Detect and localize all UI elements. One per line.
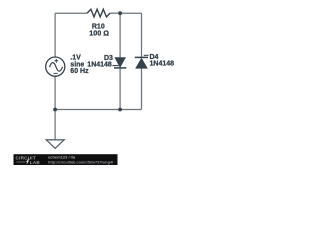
label pointer line for D3 — [112, 65, 118, 67]
label pointer line for D4 — [144, 54, 149, 56]
resistor R10 — [87, 9, 110, 17]
wire: D3 vertical upper (junction down to D3 anode) — [119, 13, 121, 58]
junction dot: top rail at D3 — [118, 11, 122, 15]
wire: top rail right segment (D3 junction to D4 corner) — [120, 12, 141, 14]
wire: top rail middle segment (resistor to D3 junction) — [110, 12, 120, 14]
svg-text:100 Ω: 100 Ω — [89, 28, 109, 37]
diode D4 (pointing up) — [135, 57, 148, 68]
junction dot: bottom rail at D3 — [118, 108, 122, 112]
watermark bar — [14, 154, 118, 165]
wire: left vertical from top rail down to source V1 top — [54, 13, 56, 57]
svg-text:1N4148: 1N4148 — [150, 61, 175, 68]
junction dot: bottom rail at source — [53, 108, 57, 112]
wire: bottom rail — [55, 109, 141, 111]
wire: source bottom to ground — [54, 76, 56, 140]
svg-text:1N4148: 1N4148 — [87, 61, 112, 68]
svg-text:60 Hz: 60 Hz — [70, 68, 89, 75]
wire: D4 vertical lower (triangle base to bottom rail corner) — [141, 68, 143, 109]
diode D3 (pointing down) — [114, 58, 126, 68]
svg-text:LAB: LAB — [30, 160, 41, 165]
svg-text:schem123 / lia: schem123 / lia — [48, 154, 76, 159]
voltage source V1 (sine source) — [46, 57, 65, 76]
svg-text:http://circuitlab.com/c53m737l: http://circuitlab.com/c53m737lwng4l — [48, 161, 113, 165]
wire: D3 vertical lower (bar to bottom rail) — [119, 68, 121, 110]
wire: D4 vertical upper (top rail down to D4 cathode bar) — [141, 13, 143, 57]
wire: top rail left segment (corner to resistor) — [55, 12, 87, 14]
ground — [46, 140, 64, 149]
